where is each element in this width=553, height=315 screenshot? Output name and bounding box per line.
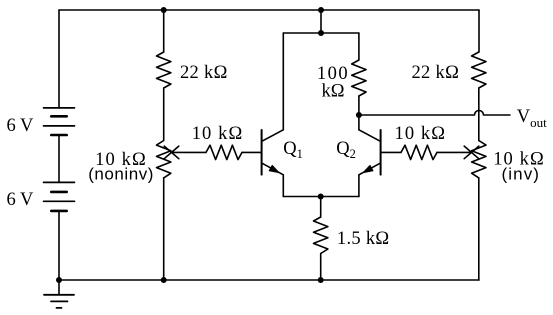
svg-text:22 kΩ: 22 kΩ — [180, 63, 228, 83]
wire Q1 emitter drop — [282, 175, 284, 197]
resistor R6 10 kOhm (inverting input series) — [401, 145, 437, 159]
svg-text:(noninv): (noninv) — [88, 164, 154, 183]
node: junction of top rail and left 22k branch — [161, 7, 167, 13]
node: junction of emitter rail and R4 — [318, 194, 324, 200]
ground symbol — [44, 295, 74, 308]
wire second rail (Q1 collector / 100k feed) — [283, 32, 359, 34]
wire left rail upper segment — [58, 10, 60, 108]
svg-text:Vout: Vout — [517, 107, 547, 130]
battery B2 (lower 6 V source) — [44, 182, 75, 211]
node: junction on second rail — [318, 30, 324, 36]
wire top supply rail — [59, 9, 479, 11]
potentiometer R7 10 kOhm inverting input — [472, 141, 486, 178]
resistor R3 10 kOhm (noninverting input series) — [206, 145, 242, 159]
wire from R2 to bottom rail — [163, 178, 165, 280]
wire from R1 to potentiometer R2 — [163, 88, 165, 141]
node: junction of top rail and differential pair feed — [318, 7, 324, 13]
resistor R8 22 kOhm (right collector load) — [472, 52, 486, 88]
potentiometer R2 10 kOhm noninverting input — [157, 141, 171, 178]
node: junction of bottom rail and ground — [56, 277, 62, 283]
resistor R1 22 kOhm (left collector load) — [157, 52, 171, 88]
resistor R4 1.5 kOhm (emitter) — [314, 217, 328, 254]
wire between battery B1 and battery B2 — [58, 135, 60, 182]
svg-text:10 kΩ: 10 kΩ — [192, 124, 244, 144]
svg-text:(inv): (inv) — [502, 164, 541, 183]
wire from top rail to resistor R1 — [163, 10, 165, 52]
svg-text:6 V: 6 V — [7, 190, 35, 210]
svg-text:22 kΩ: 22 kΩ — [412, 63, 460, 83]
wire ground stem — [58, 280, 60, 295]
wire output node to Vout with crossover hop — [359, 111, 510, 116]
svg-text:Q2: Q2 — [336, 139, 356, 161]
wire from R6 to potentiometer R7 wiper — [437, 151, 470, 153]
wire from wiper arrow to resistor R3 — [173, 151, 207, 153]
node: junction of bottom rail and R4 — [318, 277, 324, 283]
wire from R7 to bottom rail — [478, 178, 480, 280]
wire right rail upper segment — [478, 10, 480, 52]
node: junction of bottom rail and left branch — [161, 277, 167, 283]
resistor R5 100 kOhm (feedback/collector) — [352, 60, 366, 96]
wire from R8 to potentiometer R7 — [478, 88, 480, 141]
wire from Q2 base to resistor R6 — [381, 151, 401, 153]
wire from R4 to bottom rail — [320, 254, 322, 281]
potentiometer R2 wiper arrow — [164, 146, 179, 159]
battery B1 (upper 6 V source) — [44, 108, 75, 135]
svg-text:kΩ: kΩ — [322, 82, 345, 102]
svg-text:6 V: 6 V — [7, 116, 35, 136]
wire from R3 to Q1 base — [242, 151, 261, 153]
wire from top rail down to second rail — [320, 10, 322, 33]
wire common emitter rail — [283, 196, 359, 198]
svg-text:1.5 kΩ: 1.5 kΩ — [337, 229, 390, 249]
wire left rail lower segment — [58, 211, 60, 280]
wire Q2 collector drop — [358, 115, 360, 130]
svg-text:Q1: Q1 — [283, 139, 303, 161]
wire from R5 to Q2 collector node — [358, 96, 360, 115]
wire bottom rail — [59, 279, 479, 281]
transistor Q1 — [262, 130, 284, 175]
wire from second rail to resistor R5 — [358, 33, 360, 60]
wire from emitter rail to resistor R4 — [320, 197, 322, 218]
wire Q1 collector riser — [282, 33, 284, 130]
wire Q2 emitter drop — [358, 175, 360, 197]
node: Q2 collector / output node — [356, 112, 362, 118]
potentiometer R7 wiper arrow — [464, 146, 479, 159]
svg-text:10 kΩ: 10 kΩ — [394, 124, 446, 144]
transistor Q2 — [359, 130, 381, 175]
